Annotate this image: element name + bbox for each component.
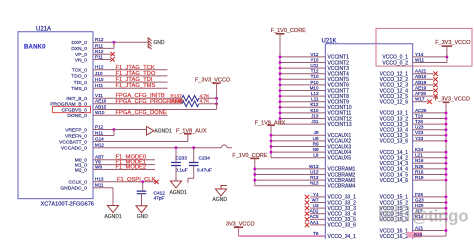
svg-text:R9: R9 bbox=[313, 141, 319, 146]
pin VCCBRAM3 (pad R13) of U21K bbox=[310, 175, 355, 184]
svg-text:AB15: AB15 bbox=[95, 104, 107, 109]
pin VCCO_13_2 (pad T16) of U21K bbox=[380, 113, 424, 122]
junction right rail row 31 bbox=[445, 229, 448, 232]
no-connect X on VCCO_12_4 bbox=[433, 88, 437, 92]
wire net FPGA_CFG_DONE bbox=[93, 114, 168, 116]
pin VCCBRAM2 (pad U13) of U21K bbox=[310, 169, 355, 178]
junction right rail row 29 bbox=[445, 218, 448, 221]
junction right rail row 22 bbox=[445, 179, 448, 182]
svg-text:B18: B18 bbox=[414, 233, 423, 238]
svg-text:BANK0: BANK0 bbox=[24, 45, 46, 51]
junction VCCINT10 bbox=[279, 106, 282, 109]
pin VCCO_33_5 (pad AC5) of U21K bbox=[310, 214, 357, 223]
pin VCCO_12_1 (pad AA21) of U21K bbox=[380, 69, 427, 78]
svg-text:AC26: AC26 bbox=[415, 108, 427, 113]
junction C233 tap bbox=[175, 146, 178, 149]
wire VCCAUX3 to rail bbox=[271, 146, 325, 148]
svg-text:GND: GND bbox=[137, 214, 149, 220]
pin DONE_0 (pad W10) of U21A bbox=[67, 110, 104, 119]
pin M2_0 (pad W9) of U21A bbox=[75, 164, 103, 173]
pin VCCAUX5 (pad L9) of U21K bbox=[313, 153, 351, 162]
wire R137 to 3V3 rail bbox=[199, 97, 217, 99]
no-connect X on VCCO_33_6 bbox=[305, 223, 309, 227]
wire VCCO_33_4 stub bbox=[310, 213, 325, 215]
svg-text:L21: L21 bbox=[415, 153, 423, 158]
junction right rail row 25 bbox=[445, 196, 448, 199]
wire net F1_JTAG_TMS bbox=[93, 87, 168, 89]
svg-text:R138: R138 bbox=[170, 99, 182, 105]
wire row 19 to right rail bbox=[413, 162, 446, 164]
svg-text:G14: G14 bbox=[95, 136, 104, 141]
svg-text:U3: U3 bbox=[313, 203, 319, 208]
svg-text:VCCO_16_2: VCCO_16_2 bbox=[380, 234, 409, 239]
wire VCCINT6 to rail bbox=[280, 84, 325, 86]
pin VCCINT12 (pad J13) of U21K bbox=[311, 113, 352, 122]
pin TDO_0 (pad J10) of U21A bbox=[71, 71, 103, 80]
wire net F1_MODE1 bbox=[93, 164, 155, 166]
wire F_1V8_AUX rail bbox=[270, 125, 272, 158]
wire F_1V8_AUX riser bbox=[187, 134, 189, 142]
svg-text:Y4: Y4 bbox=[313, 192, 319, 197]
pin VCCO_33_2 (pad W7) of U21K bbox=[312, 197, 356, 206]
junction right rail row 19 bbox=[445, 162, 448, 165]
svg-text:N16: N16 bbox=[415, 158, 424, 163]
svg-text:AGND1: AGND1 bbox=[154, 129, 171, 135]
wire VREF vertical tie bbox=[113, 130, 115, 136]
junction VCCAUX3 bbox=[270, 145, 273, 148]
wire VCCINT5 to rail bbox=[280, 78, 325, 80]
pin PROGRAM_B_0 (pad AE16) of U21A bbox=[50, 99, 106, 108]
pin VCCO_13_1 (pad AC26) of U21K bbox=[380, 108, 427, 117]
wire hop over crossing bbox=[221, 145, 227, 148]
wire net F1_JTAG_TCK bbox=[93, 69, 168, 71]
svg-text:F_3V3_VCCO: F_3V3_VCCO bbox=[435, 40, 471, 46]
wire F_1V0_CORE rail bbox=[279, 34, 281, 124]
pin CCLK_0 (pad H13) of U21A bbox=[69, 177, 104, 186]
svg-text:FPGA_CFG_DONE: FPGA_CFG_DONE bbox=[116, 110, 167, 116]
wire row 10 to right rail bbox=[413, 112, 446, 114]
svg-text:AGND1: AGND1 bbox=[104, 214, 121, 220]
svg-text:V23: V23 bbox=[415, 130, 424, 135]
junction VCCAUX1 bbox=[270, 134, 273, 137]
pin TDI_0 (pad H10) of U21A bbox=[74, 77, 104, 86]
wire VN_0 stub bbox=[93, 59, 111, 61]
svg-text:J10: J10 bbox=[95, 71, 103, 76]
svg-text:VCCO_14_6: VCCO_14_6 bbox=[380, 178, 409, 184]
svg-text:K10: K10 bbox=[310, 108, 319, 113]
svg-text:AE19: AE19 bbox=[415, 85, 427, 90]
pin VCCO_12_4 (pad AE19) of U21K bbox=[380, 85, 427, 94]
wire row 14 to right rail bbox=[413, 134, 446, 136]
junction right rail row 14 bbox=[445, 134, 448, 137]
svg-text:F_3V3_VCCO: F_3V3_VCCO bbox=[435, 97, 471, 103]
wire VREFN stub bbox=[93, 135, 114, 137]
no-ERC X at F1_QSPI_CLK end bbox=[154, 180, 158, 184]
svg-text:F_3V3_VCCO: F_3V3_VCCO bbox=[195, 78, 231, 84]
svg-text:AGND: AGND bbox=[213, 197, 228, 203]
capacitor C234 0.47uF bbox=[189, 163, 199, 166]
svg-text:N13: N13 bbox=[310, 181, 319, 186]
junction VREF tie bbox=[113, 128, 116, 131]
junction right rail row 11 bbox=[445, 117, 448, 120]
wire row 20 to right rail bbox=[413, 168, 446, 170]
wire row 13 to right rail bbox=[413, 129, 446, 131]
junction right rail row 13 bbox=[445, 128, 448, 131]
pin VCCINT3 (pad U11) of U21K bbox=[310, 63, 349, 72]
pin VCCINT11 (pad K10) of U21K bbox=[310, 108, 351, 117]
svg-text:R19: R19 bbox=[415, 175, 424, 180]
svg-text:M2_0: M2_0 bbox=[75, 167, 88, 173]
svg-text:V11: V11 bbox=[95, 93, 103, 98]
wire DXN_0 stub bbox=[93, 47, 114, 49]
svg-text:H10: H10 bbox=[95, 77, 104, 82]
pin VCCO_0_2 (pad W11) of U21K bbox=[382, 57, 424, 66]
svg-text:Y10: Y10 bbox=[310, 57, 319, 62]
svg-text:R16: R16 bbox=[415, 169, 424, 174]
svg-text:J9: J9 bbox=[314, 130, 319, 135]
junction right rail row 12 bbox=[445, 123, 448, 126]
pin VREFP_0 (pad P12) of U21A bbox=[65, 124, 103, 133]
svg-text:DONE_0: DONE_0 bbox=[67, 113, 87, 119]
wire VCCO_33_5 stub bbox=[310, 218, 325, 220]
svg-text:W7: W7 bbox=[312, 197, 319, 202]
junction VCCINT12 bbox=[279, 117, 282, 120]
wire net CFGBVS to rail bbox=[93, 109, 217, 111]
pin VCCINT5 (pad T10) of U21K bbox=[311, 74, 350, 83]
wire row 27 to right rail bbox=[413, 207, 446, 209]
pin VCCAUX3 (pad R9) of U21K bbox=[313, 141, 352, 150]
junction VCCINT5 bbox=[279, 78, 282, 81]
pin VCCADC_0 (pad M12) of U21A bbox=[61, 143, 104, 152]
pin VCCAUX1 (pad J9) of U21K bbox=[314, 130, 352, 139]
no-connect X on VCCO_12_2 bbox=[433, 77, 437, 81]
capacitor C412 top lead bbox=[142, 182, 144, 191]
pin INIT_B_0 (pad V11) of U21A bbox=[66, 93, 103, 102]
power F_3V3_VCCO bar (top right) bbox=[442, 45, 452, 47]
wire net F1_MODE0 bbox=[93, 159, 155, 161]
svg-text:F1_QSPI_CLK: F1_QSPI_CLK bbox=[117, 177, 155, 183]
wire row 29 to right rail bbox=[413, 218, 446, 220]
junction right rail row 28 bbox=[445, 212, 448, 215]
pin VCCO_14_2 (pad L21) of U21K bbox=[380, 153, 423, 162]
svg-text:XC7A100T-2FGG676: XC7A100T-2FGG676 bbox=[41, 202, 94, 208]
wire VCCBRAM rail bbox=[254, 158, 256, 185]
junction right rail row 26 bbox=[445, 201, 448, 204]
svg-text:W13: W13 bbox=[309, 164, 319, 169]
svg-text:AC5: AC5 bbox=[310, 214, 319, 219]
svg-text:P10: P10 bbox=[310, 80, 319, 85]
wire row 32 to right rail bbox=[413, 235, 446, 237]
pin VCCO_15_3 (pad H20) of U21K bbox=[380, 203, 424, 212]
pin VCCO_33_4 (pad AD2) of U21K bbox=[310, 209, 357, 218]
wire row 11 to right rail bbox=[413, 118, 446, 120]
ground AGND1 triangle (GNDADC) bbox=[107, 206, 118, 213]
pin VP_0 (pad N12) of U21A bbox=[75, 49, 104, 58]
svg-text:L9: L9 bbox=[313, 153, 319, 158]
wire GNDADC stub bbox=[93, 187, 113, 189]
svg-text:F26: F26 bbox=[415, 192, 423, 197]
wire net F1_QSPI_CLK bbox=[93, 181, 156, 183]
wire to GND bbox=[114, 41, 148, 43]
wire VCCBATT to F_1V8_AUX bbox=[93, 141, 188, 143]
svg-text:T6: T6 bbox=[313, 231, 319, 236]
wire VCCINT7 to rail bbox=[280, 90, 325, 92]
wire VCCBRAM1 to rail bbox=[255, 168, 326, 170]
wire VP_0 stub bbox=[93, 53, 111, 55]
pin VCCINT4 (pad T12) of U21K bbox=[311, 69, 350, 78]
wire VCCO_12_3 stub bbox=[413, 84, 434, 86]
junction VCCINT11 bbox=[279, 112, 282, 115]
capacitor C233 0.1uF bbox=[171, 163, 181, 166]
junction right rail row 18 bbox=[445, 156, 448, 159]
svg-text:K24: K24 bbox=[415, 147, 424, 152]
junction VCCINT2 bbox=[279, 61, 282, 64]
wire VCCO_0 vertical tie bbox=[446, 57, 448, 63]
svg-text:C234: C234 bbox=[199, 156, 211, 162]
svg-text:F1_MODE2: F1_MODE2 bbox=[116, 165, 147, 171]
junction VCCINT6 bbox=[279, 84, 282, 87]
ground GND triangle (C412) bbox=[136, 206, 147, 213]
wire VCCAUX4 to rail bbox=[271, 151, 325, 153]
no-connect X on VCCO_33_5 bbox=[305, 217, 309, 221]
wire row 21 to right rail bbox=[413, 174, 446, 176]
junction VCCAUX2 bbox=[270, 140, 273, 143]
wire row 12 to right rail bbox=[413, 123, 446, 125]
wire VCCO_12_2 stub bbox=[413, 78, 434, 80]
svg-text:Y23: Y23 bbox=[415, 136, 424, 141]
svg-text:AB16: AB16 bbox=[415, 74, 427, 79]
svg-text:P11: P11 bbox=[95, 54, 103, 59]
pin VCCINT7 (pad M10) of U21K bbox=[310, 85, 350, 94]
svg-text:C233: C233 bbox=[175, 156, 187, 162]
pin VCCO_13_4 (pad U23) of U21K bbox=[380, 125, 424, 134]
svg-text:R13: R13 bbox=[310, 175, 319, 180]
pin VCCO_12_3 (pad AB19) of U21K bbox=[380, 80, 427, 89]
wire VCCINT1 to rail bbox=[280, 56, 325, 58]
wire VCCO_33_3 stub bbox=[310, 207, 325, 209]
junction VCCINT4 bbox=[279, 72, 282, 75]
svg-text:TMS_0: TMS_0 bbox=[71, 86, 87, 92]
svg-text:J13: J13 bbox=[311, 113, 319, 118]
pin VCCO_33_1 (pad Y4) of U21K bbox=[313, 192, 356, 201]
ground AGND1 triangle (VREF) bbox=[147, 127, 154, 136]
svg-text:VCCBATT_0: VCCBATT_0 bbox=[59, 139, 87, 145]
pin GNDADC_0 (pad M11) of U21A bbox=[60, 183, 104, 192]
pin VCCAUX4 (pad N9) of U21K bbox=[313, 147, 352, 156]
no-connect X on VCCO_33_3 bbox=[305, 206, 309, 210]
svg-text:V12: V12 bbox=[310, 52, 319, 57]
svg-text:GND: GND bbox=[153, 40, 165, 46]
svg-text:VCCO_13_6: VCCO_13_6 bbox=[380, 139, 409, 145]
pin VCCO_14_4 (pad N26) of U21K bbox=[380, 164, 424, 173]
svg-text:DXN_0: DXN_0 bbox=[71, 46, 87, 52]
pin DXN_0 (pad R11) of U21A bbox=[71, 43, 103, 52]
svg-text:DXP_0: DXP_0 bbox=[72, 40, 88, 46]
svg-text:VCCO_0_2: VCCO_0_2 bbox=[382, 60, 408, 66]
svg-text:W10: W10 bbox=[95, 110, 105, 115]
power F_1V0_CORE bar (top) bbox=[276, 33, 285, 35]
pin VCCO_14_6 (pad R19) of U21K bbox=[380, 175, 424, 184]
pin VCCO_12_2 (pad AB16) of U21K bbox=[380, 74, 427, 83]
pin VCCO_0_1 (pad Y14) of U21K bbox=[382, 52, 423, 61]
wire VCCO_12_6 stub bbox=[413, 101, 428, 103]
svg-text:R11: R11 bbox=[95, 43, 104, 48]
wire VCCO_12_1 stub bbox=[413, 73, 434, 75]
svg-text:VCCO_12_6: VCCO_12_6 bbox=[380, 100, 409, 106]
svg-text:F1_JTAG_TMS: F1_JTAG_TMS bbox=[116, 83, 156, 89]
wire 3V3 rail vertical bbox=[216, 83, 218, 109]
svg-text:N26: N26 bbox=[415, 164, 424, 169]
wire VCCO_0_1 bbox=[413, 56, 447, 58]
junction right rail row 27 bbox=[445, 207, 448, 210]
svg-text:N11: N11 bbox=[95, 130, 104, 135]
no-connect X on VCCO_12_5 bbox=[433, 94, 437, 98]
junction at DXP/DXN tie bbox=[113, 41, 116, 44]
junction VCCINT1 bbox=[279, 56, 282, 59]
wire VCCAUX1 to rail bbox=[271, 134, 325, 136]
power F_1V8_AUX bar (right section) bbox=[267, 124, 275, 126]
wire 3V3_VCCO stem bbox=[238, 227, 240, 236]
svg-text:H11: H11 bbox=[95, 83, 104, 88]
FPGA symbol U21A BANK0 box bbox=[18, 32, 93, 199]
svg-text:GNDADC_0: GNDADC_0 bbox=[60, 186, 87, 192]
svg-text:AB19: AB19 bbox=[415, 80, 427, 85]
wire VCCINT12 to rail bbox=[280, 118, 325, 120]
watermark bbox=[380, 207, 409, 221]
pin M0_0 (pad AB7) of U21A bbox=[75, 155, 104, 164]
junction R138/rail bbox=[215, 102, 218, 105]
svg-text:AD2: AD2 bbox=[310, 209, 319, 214]
svg-text:VN_0: VN_0 bbox=[75, 57, 88, 63]
wire VCCINT9 to rail bbox=[280, 101, 325, 103]
svg-text:VCCO_34_1: VCCO_34_1 bbox=[328, 234, 357, 239]
svg-text:K12: K12 bbox=[310, 102, 319, 107]
highlight box around CFGBVS_0 bbox=[53, 106, 91, 112]
wire VCCINT4 to rail bbox=[280, 73, 325, 75]
pin VCCO_16_1 (pad A21) of U21K bbox=[380, 225, 424, 234]
svg-text:VCCINT13: VCCINT13 bbox=[328, 122, 352, 128]
svg-text:N12: N12 bbox=[95, 49, 104, 54]
power 3V3_VCCO bar bbox=[234, 226, 243, 228]
no-connect X on VCCO_33_2 bbox=[305, 200, 309, 204]
pin VCCO_15_4 (pad J17) of U21K bbox=[380, 209, 423, 218]
capacitor C233 top lead bbox=[175, 148, 177, 163]
AGND stem bbox=[221, 186, 227, 190]
pin VN_0 (pad P11) of U21A bbox=[75, 54, 104, 63]
resistor R138 4.7K bbox=[182, 101, 199, 107]
svg-text:T12: T12 bbox=[311, 69, 319, 74]
pin VCCO_12_5 (pad AF26) of U21K bbox=[380, 91, 427, 100]
pin VCCINT6 (pad P10) of U21K bbox=[310, 80, 349, 89]
junction VCCBRAM2 bbox=[253, 173, 256, 176]
pin VCCBRAM1 (pad W13) of U21K bbox=[309, 164, 355, 173]
junction VCCINT3 bbox=[279, 67, 282, 70]
junction C234 tap bbox=[192, 146, 195, 149]
svg-text:VCCBRAM4: VCCBRAM4 bbox=[328, 184, 356, 190]
svg-text:F1_JTAG_TDO: F1_JTAG_TDO bbox=[116, 71, 156, 77]
capacitor C233 bottom lead bbox=[175, 166, 177, 182]
power F_3V3_VCCO bar (pullups) bbox=[213, 82, 221, 84]
svg-text:L13: L13 bbox=[311, 91, 319, 96]
svg-text:AA21: AA21 bbox=[415, 69, 427, 74]
svg-text:U13: U13 bbox=[310, 169, 319, 174]
no-connect X on VCCO_33_1 bbox=[305, 195, 309, 199]
junction VCCINT7 bbox=[279, 89, 282, 92]
junction VCCO_0 bbox=[446, 56, 449, 59]
pin M1_0 (pad Y9) of U21A bbox=[75, 160, 101, 169]
svg-text:M10: M10 bbox=[310, 85, 319, 90]
svg-text:@tingo: @tingo bbox=[412, 208, 468, 226]
svg-text:VP_0: VP_0 bbox=[75, 52, 87, 58]
junction right rail row 21 bbox=[445, 173, 448, 176]
wire VCCO_33_6 stub bbox=[310, 224, 325, 226]
selection highlight on pin B18 bbox=[407, 232, 422, 238]
junction VCCINT9 bbox=[279, 100, 282, 103]
svg-text:0.47uF: 0.47uF bbox=[197, 167, 212, 173]
ground GND power symbol bbox=[148, 37, 151, 49]
pin TMS_0 (pad H11) of U21A bbox=[71, 83, 103, 92]
svg-text:T10: T10 bbox=[311, 74, 319, 79]
wire VCCBRAM3 to rail bbox=[255, 179, 326, 181]
junction right rail row 17 bbox=[445, 151, 448, 154]
svg-text:W11: W11 bbox=[415, 57, 425, 62]
no-connect X on VP_0 bbox=[110, 52, 114, 56]
wire R138 to 3V3 rail bbox=[199, 103, 217, 105]
no-connect X on VCCO_33_4 bbox=[305, 212, 309, 216]
pin VCCO_34_1 (pad T6) of U21K bbox=[313, 231, 356, 240]
junction VCCINT8 bbox=[279, 95, 282, 98]
svg-text:P12: P12 bbox=[95, 124, 104, 129]
wire DXP-DXN vertical tie bbox=[113, 42, 115, 48]
wire net F1_JTAG_TDI bbox=[93, 81, 168, 83]
capacitor C412 47pF bbox=[137, 191, 147, 194]
pin VCCINT1 (pad V12) of U21K bbox=[310, 52, 349, 61]
svg-text:M11: M11 bbox=[95, 183, 104, 188]
svg-text:AE16: AE16 bbox=[95, 99, 107, 104]
svg-text:47pF: 47pF bbox=[154, 195, 165, 201]
wire VCCO_34_1 run bbox=[239, 235, 326, 237]
no-connect X on VCCO_12_6 bbox=[427, 100, 431, 104]
wire row 15 to right rail bbox=[413, 140, 446, 142]
junction R137/rail bbox=[215, 97, 218, 100]
pin VCCBATT_0 (pad G14) of U21A bbox=[59, 136, 104, 145]
svg-text:W9: W9 bbox=[95, 164, 102, 169]
svg-text:W17: W17 bbox=[415, 97, 425, 102]
svg-text:F1_JTAG_TCK: F1_JTAG_TCK bbox=[116, 65, 155, 71]
pin TCK_0 (pad H12) of U21A bbox=[72, 65, 104, 74]
pin VCCO_13_6 (pad Y23) of U21K bbox=[380, 136, 424, 145]
svg-text:H12: H12 bbox=[95, 65, 104, 70]
svg-text:L11: L11 bbox=[311, 97, 319, 102]
pin VCCO_15_5 (pad K14) of U21K bbox=[380, 214, 424, 223]
svg-text:A21: A21 bbox=[415, 225, 424, 230]
capacitor C412 bottom lead bbox=[141, 194, 143, 206]
wire net FPGA_CFG_PROGRAMB bbox=[93, 103, 182, 105]
svg-text:U9: U9 bbox=[313, 136, 319, 141]
wire VCCBRAM4 to rail bbox=[255, 185, 326, 187]
svg-text:G23: G23 bbox=[415, 197, 424, 202]
junction right rail row 10 bbox=[445, 112, 448, 115]
wire F_3V3_VCCO right rail bbox=[445, 102, 447, 236]
pin DXP_0 (pad R12) of U21A bbox=[72, 37, 104, 46]
wire row 17 to right rail bbox=[413, 151, 446, 153]
wire VCCO_12_5 stub bbox=[413, 95, 434, 97]
annotation highlight rectangle bbox=[376, 28, 472, 66]
wire VCCAUX2 to rail bbox=[271, 140, 325, 142]
pin VCCO_16_2 (pad B18) of U21K bbox=[380, 234, 409, 240]
wire VCCO_12_4 stub bbox=[413, 90, 434, 92]
svg-text:AGND1: AGND1 bbox=[170, 190, 187, 196]
